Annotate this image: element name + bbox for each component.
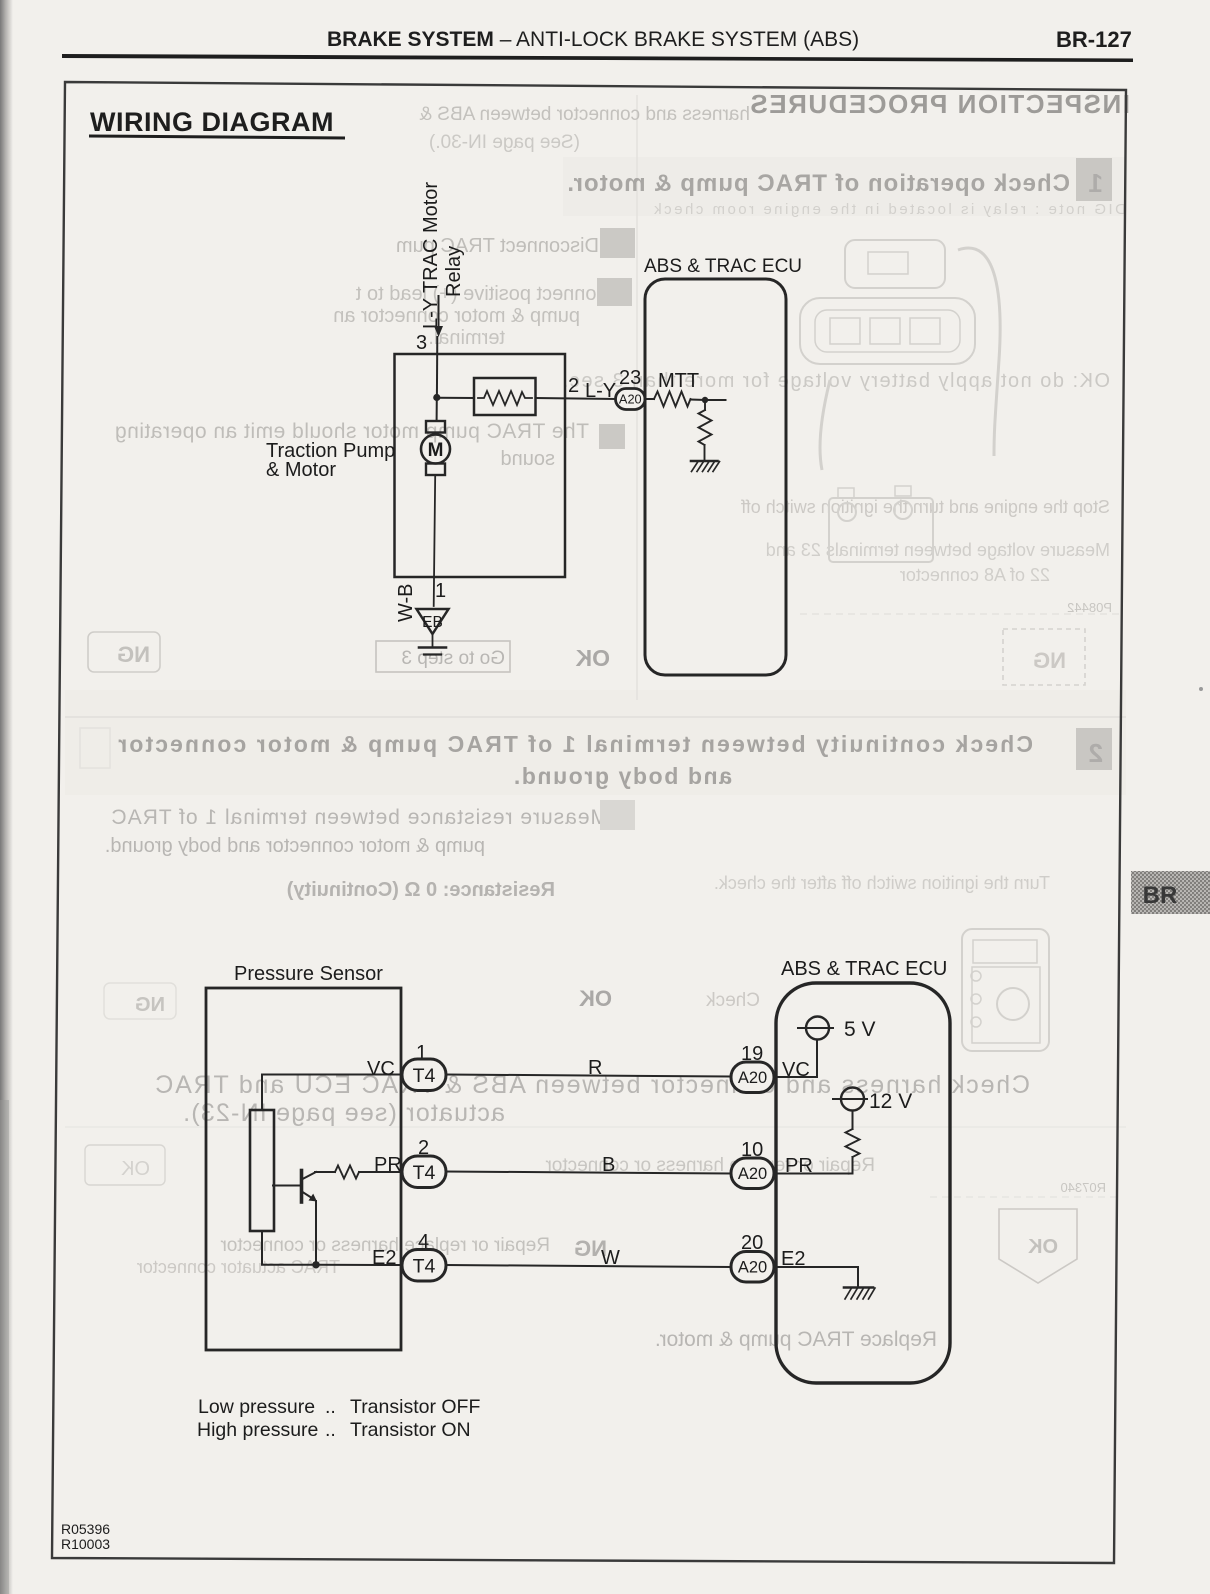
wire coil to connector A20	[536, 398, 617, 399]
pressure sensor box	[206, 988, 401, 1350]
resistor MTT pull-down (horizontal)	[654, 392, 691, 407]
svg-text:5 V: 5 V	[844, 1018, 876, 1041]
svg-text:T4: T4	[413, 1065, 436, 1087]
wire resistor to PR rail	[852, 1157, 854, 1174]
svg-text:Pressure Sensor: Pressure Sensor	[234, 963, 383, 985]
wire EB to earth	[432, 634, 434, 646]
svg-text:NG: NG	[1033, 648, 1066, 673]
connector A20 pin19	[731, 1062, 774, 1093]
connector A20 pin20	[731, 1252, 774, 1283]
svg-text:pump & motor connector an: pump & motor connector an	[333, 305, 580, 327]
wire node to motor	[436, 398, 438, 422]
svg-text:& Motor: & Motor	[266, 459, 336, 481]
wire motor to ground EB	[434, 475, 436, 606]
wire VC internal horizontal	[262, 1074, 402, 1076]
svg-text:1: 1	[435, 580, 446, 602]
svg-text:TRAC actuator connector: TRAC actuator connector	[137, 1257, 340, 1277]
svg-text:Check operation of TRAC pump &: Check operation of TRAC pump & motor.	[566, 170, 1070, 197]
svg-text:VC: VC	[367, 1058, 395, 1080]
svg-text:A20: A20	[738, 1165, 767, 1183]
connector T4 pin1	[402, 1059, 446, 1091]
svg-text:WIRING DIAGRAM: WIRING DIAGRAM	[90, 107, 334, 137]
svg-text:Connect positive (+) lead to t: Connect positive (+) lead to t	[355, 283, 611, 305]
5V supply circle	[806, 1017, 829, 1040]
motor M1	[421, 435, 450, 464]
wire resistor to node	[691, 399, 706, 402]
svg-text:12 V: 12 V	[869, 1090, 912, 1113]
svg-text:A20: A20	[738, 1259, 767, 1277]
svg-text:E2: E2	[372, 1247, 396, 1269]
svg-text:NG: NG	[117, 642, 150, 667]
wire node to relay coil	[437, 397, 474, 399]
12V supply circle	[841, 1088, 864, 1111]
svg-text:R05396: R05396	[61, 1521, 110, 1537]
svg-text:actuator (see page IN-23).: actuator (see page IN-23).	[182, 1099, 505, 1127]
svg-text:3: 3	[416, 332, 427, 354]
svg-text:R: R	[588, 1057, 602, 1079]
resistor 12V pull-up (vertical)	[846, 1129, 860, 1157]
resistor to ground (vertical)	[699, 410, 712, 445]
connector A20 (MTT pin)	[616, 389, 646, 410]
svg-text:Go to step 3: Go to step 3	[401, 648, 505, 669]
svg-text:High pressure..Transistor ON: High pressure..Transistor ON	[197, 1419, 471, 1441]
transistor Q1 emitter with arrow	[303, 1192, 314, 1199]
ground triangle EB	[417, 609, 449, 634]
wire VC internal vertical	[261, 1075, 263, 1111]
wire B	[446, 1172, 731, 1174]
resistor R (sensor element)	[250, 1110, 274, 1231]
node junction	[433, 394, 440, 401]
svg-text:Measure voltage between termin: Measure voltage between terminals 23 and	[766, 540, 1110, 560]
svg-text:R10003: R10003	[61, 1536, 110, 1552]
svg-text:EB: EB	[422, 614, 443, 631]
svg-text:sound: sound	[501, 448, 556, 470]
wire collector to resistor	[315, 1171, 335, 1173]
ABS & TRAC ECU box U2	[776, 983, 950, 1383]
ABS & TRAC ECU box U1	[645, 279, 786, 675]
svg-text:W-B: W-B	[395, 583, 417, 622]
connector A20 pin10	[731, 1158, 774, 1189]
svg-text:M: M	[428, 440, 444, 461]
svg-text:W: W	[601, 1247, 620, 1269]
svg-text:OK: OK	[1027, 1236, 1058, 1258]
svg-text:BR: BR	[1143, 882, 1178, 909]
earth symbol below EB	[419, 646, 446, 649]
traction pump & motor box	[395, 354, 566, 577]
node junction on E2 rail	[312, 1261, 319, 1268]
svg-text:BR-127: BR-127	[1056, 27, 1132, 52]
svg-text:INSPECTION PROCEDURES: INSPECTION PROCEDURES	[749, 89, 1130, 119]
connector T4 pin4	[402, 1250, 446, 1282]
node MTT	[702, 397, 708, 403]
svg-text:ABS & TRAC ECU: ABS & TRAC ECU	[781, 958, 947, 980]
wire node down	[704, 400, 706, 410]
resistor in PR branch	[335, 1166, 359, 1179]
wire resistor to T4 pin2	[359, 1171, 402, 1173]
wire A20 to resistor	[645, 398, 654, 400]
svg-text:MTT: MTT	[658, 370, 699, 392]
12V supply bar	[833, 1098, 867, 1100]
wire PR rail internal	[774, 1173, 853, 1175]
svg-text:PR: PR	[374, 1154, 402, 1176]
svg-text:harness and connector between: harness and connector between ABS &	[419, 104, 750, 125]
ground (MTT)	[691, 460, 718, 463]
svg-text:Resistance: 0 Ω (Continuity): Resistance: 0 Ω (Continuity)	[287, 879, 555, 901]
svg-text:Measure resistance between ter: Measure resistance between terminal 1 of…	[111, 806, 608, 829]
svg-text:P08442: P08442	[1067, 600, 1112, 615]
wire VC to 5V	[774, 1040, 817, 1077]
svg-text:1: 1	[1089, 168, 1103, 198]
svg-text:BRAKE SYSTEM – ANTI-LOCK BRAKE: BRAKE SYSTEM – ANTI-LOCK BRAKE SYSTEM (A…	[327, 28, 859, 51]
wire 12V down	[852, 1111, 854, 1130]
wire resistor to ground	[704, 445, 706, 460]
wire E2 internal	[774, 1267, 858, 1287]
svg-text:2: 2	[568, 375, 579, 397]
svg-text:A20: A20	[619, 392, 642, 407]
svg-text:22 of A8 connector: 22 of A8 connector	[900, 565, 1050, 585]
svg-text:Relay: Relay	[443, 246, 465, 297]
wire sensor element to E2 rail	[262, 1231, 316, 1265]
svg-text:OK: OK	[120, 1158, 150, 1180]
svg-text:(See page IN-30.): (See page IN-30.)	[429, 132, 580, 153]
svg-text:OK: OK	[575, 645, 610, 671]
svg-text:DIG note : relay is locate: DIG note : relay is located in the engin…	[652, 201, 1126, 218]
svg-text:L-Y: L-Y	[585, 380, 616, 402]
svg-text:B: B	[602, 1154, 615, 1176]
wire base of transistor	[273, 1185, 300, 1187]
wire node stub right	[705, 399, 726, 401]
svg-text:pump & motor connector and bod: pump & motor connector and body ground.	[105, 835, 485, 857]
svg-text:and body ground.: and body ground.	[512, 763, 732, 789]
svg-text:2: 2	[1089, 738, 1103, 768]
svg-text:T4: T4	[413, 1256, 436, 1278]
wire feed arrow from TRAC motor relay	[438, 296, 440, 327]
wire W	[446, 1265, 731, 1267]
svg-text:Replace TRAC pump & motor.: Replace TRAC pump & motor.	[655, 1328, 937, 1351]
motor M1 brush top	[426, 421, 445, 433]
svg-text:ABS & TRAC ECU: ABS & TRAC ECU	[644, 256, 802, 277]
wire pin3 to node	[436, 337, 438, 397]
wire E2 rail to T4 pin4	[316, 1264, 402, 1266]
svg-text:A20: A20	[738, 1069, 767, 1087]
connector T4 pin2	[402, 1156, 446, 1188]
svg-text:23: 23	[619, 367, 641, 389]
motor M1 brush bottom	[426, 464, 445, 476]
wire R	[446, 1075, 731, 1077]
relay coil resistor zigzag	[478, 391, 532, 405]
svg-text:Check continuity between termi: Check continuity between terminal 1 of T…	[116, 731, 1033, 757]
svg-text:T4: T4	[413, 1162, 436, 1184]
svg-text:Check: Check	[706, 990, 760, 1011]
svg-text:Stop the engine and turn the i: Stop the engine and turn the ignition sw…	[740, 497, 1110, 517]
svg-text:NG: NG	[135, 994, 165, 1016]
relay coil resistor box	[474, 378, 536, 415]
svg-text:Turn the ignition switch off a: Turn the ignition switch off after the c…	[714, 873, 1050, 893]
svg-text:OK: OK	[579, 986, 612, 1011]
wire emitter down to E2 rail	[315, 1201, 317, 1265]
transistor Q1 base bar	[300, 1171, 304, 1203]
ground (E2)	[844, 1286, 873, 1289]
transistor Q1 collector	[303, 1172, 317, 1179]
svg-text:R07340: R07340	[1060, 1180, 1106, 1195]
5V supply bar	[798, 1027, 833, 1029]
